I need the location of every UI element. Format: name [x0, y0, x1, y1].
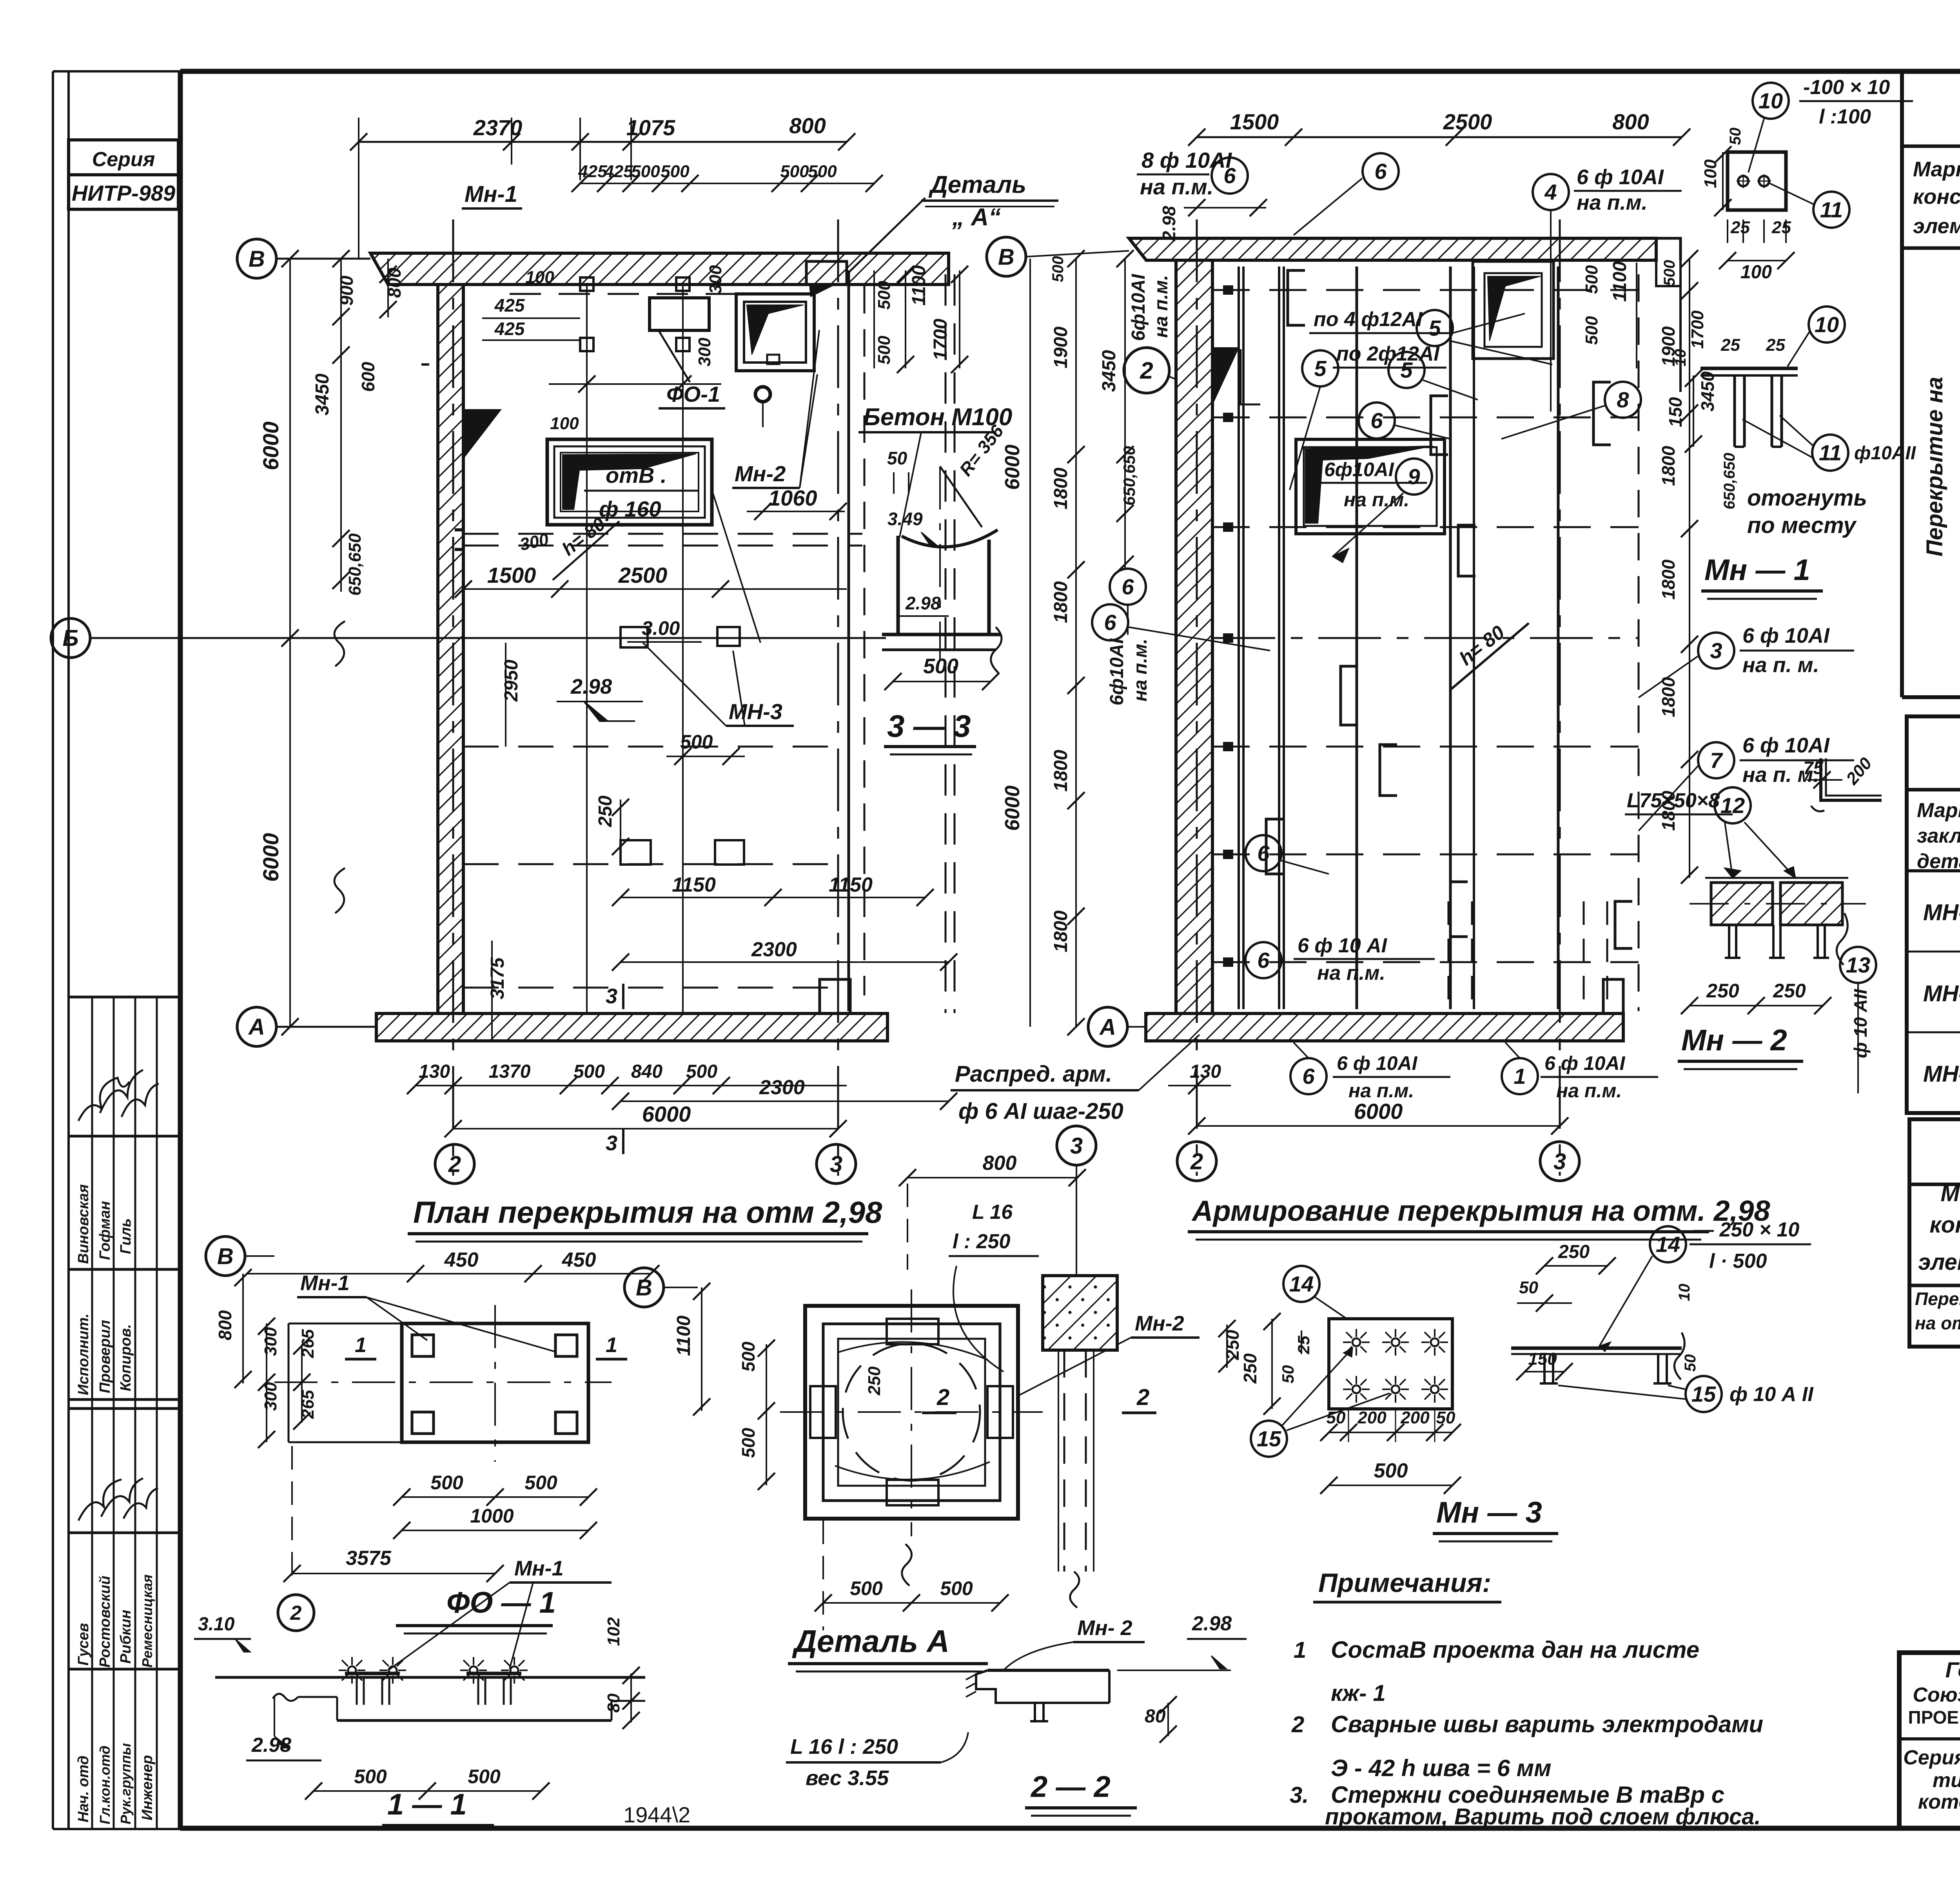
axis 2 right plan: [1196, 219, 1198, 1176]
svg-text:300: 300: [695, 337, 714, 366]
ФО-1 axis В circle: [206, 1236, 245, 1276]
svg-text:3175: 3175: [487, 957, 508, 999]
svg-text:10: 10: [1815, 312, 1839, 337]
sidebar signature table: [69, 996, 180, 999]
svg-text:1500: 1500: [1230, 109, 1279, 134]
circled 6 lower1: [1245, 835, 1281, 871]
svg-text:Мн — 3: Мн — 3: [1436, 1496, 1542, 1529]
left plan Мн-1 embedded square: [736, 294, 814, 371]
svg-text:2500: 2500: [618, 563, 668, 587]
svg-text:Мн-1: Мн-1: [514, 1557, 564, 1580]
svg-text:констр.: констр.: [1929, 1212, 1960, 1238]
right plan Мн-1 plate frame top right: [1473, 261, 1553, 359]
svg-text:500: 500: [430, 1472, 463, 1494]
svg-text:Перекрытие: Перекрытие: [1915, 1289, 1960, 1309]
Мн-3 right section sketch: [1511, 1347, 1682, 1350]
svg-text:6: 6: [1104, 610, 1116, 635]
Мн-2 dims 250 250: [1690, 1005, 1823, 1006]
Мн-1 circled 10 top with label: [1753, 83, 1789, 119]
circled 4 with label: [1533, 174, 1569, 210]
left plan washer symbol: [755, 387, 770, 402]
svg-text:10: 10: [1759, 89, 1783, 113]
svg-text:10: 10: [1676, 1284, 1693, 1302]
svg-text:Серия: Серия: [92, 148, 155, 171]
svg-text:6ф10АI: 6ф10АI: [1128, 274, 1149, 341]
svg-text:на п.м.: на п.м.: [1344, 489, 1409, 511]
left plan bottom wall hatched band: [376, 1013, 887, 1041]
svg-text:Армирование перекрытия на отм.: Армирование перекрытия на отм. 2,98: [1191, 1195, 1770, 1227]
Деталь А bottom dims 500 500: [823, 1602, 1000, 1604]
svg-text:6000: 6000: [258, 833, 283, 882]
svg-text:6: 6: [1302, 1064, 1315, 1089]
svg-text:500: 500: [524, 1472, 557, 1494]
svg-text:2.98: 2.98: [1192, 1612, 1232, 1635]
svg-text:2500: 2500: [1443, 109, 1492, 134]
svg-text:200: 200: [1400, 1408, 1430, 1427]
svg-text:6000: 6000: [1001, 444, 1024, 490]
svg-text:5: 5: [1400, 358, 1413, 383]
svg-text:15: 15: [1691, 1382, 1716, 1407]
svg-text:50: 50: [1327, 1408, 1346, 1427]
svg-text:3.: 3.: [1290, 1782, 1308, 1808]
Деталь А center lines: [911, 1289, 912, 1536]
svg-text:отм. 2.98: отм. 2.98: [1957, 413, 1960, 521]
Мн-1 elevation view: [1700, 367, 1798, 370]
svg-text:6 ф 10АI: 6 ф 10АI: [1742, 624, 1830, 647]
axis Б line across left plan: [438, 637, 886, 639]
svg-text:12: 12: [1720, 793, 1745, 818]
svg-text:6: 6: [1257, 841, 1270, 866]
svg-text:250: 250: [595, 796, 616, 827]
Мн-2 studs: [1728, 925, 1730, 958]
svg-text:2: 2: [1190, 1149, 1203, 1174]
svg-text:6000: 6000: [642, 1102, 691, 1126]
svg-text:100: 100: [525, 268, 554, 287]
svg-text:План перекрытия на отм 2,98: План перекрытия на отм 2,98: [413, 1195, 882, 1229]
svg-text:250: 250: [1773, 980, 1806, 1002]
svg-text:500: 500: [468, 1766, 501, 1787]
svg-text:500: 500: [354, 1766, 387, 1787]
Мн-1 detail plate plan view: [1728, 152, 1786, 210]
right plan right chain: [1689, 259, 1690, 878]
axis circle В left: [237, 239, 276, 278]
Деталь А frame squares: [805, 1306, 1018, 1519]
right plan axis 2 balloon top: [1124, 348, 1169, 393]
svg-text:3: 3: [1070, 1133, 1083, 1158]
axis 2 line and circle: [452, 219, 454, 1176]
svg-text:250: 250: [1706, 980, 1739, 1002]
svg-text:отВ .: отВ .: [606, 463, 667, 488]
svg-text:ф10АII: ф10АII: [1854, 443, 1916, 464]
svg-text:Распред. арм.: Распред. арм.: [955, 1061, 1112, 1087]
svg-text:Ростовский: Ростовский: [97, 1575, 113, 1668]
svg-text:Марка: Марка: [1913, 158, 1960, 181]
svg-text:250: 250: [865, 1366, 884, 1396]
svg-text:1000: 1000: [470, 1505, 514, 1527]
svg-text:Гиль: Гиль: [118, 1218, 134, 1254]
right plan top wall hatched band: [1129, 238, 1656, 260]
1-1 slab section: [215, 1676, 645, 1679]
left plan dim 2300 bottom: [621, 1100, 949, 1102]
svg-text:Мн-1: Мн-1: [300, 1271, 350, 1295]
middle dim chains 6000 1800: [1029, 259, 1031, 1027]
svg-text:800: 800: [983, 1152, 1017, 1175]
svg-text:50: 50: [1436, 1408, 1455, 1427]
svg-text:102: 102: [604, 1617, 623, 1646]
Мн-3 dim 500: [1329, 1485, 1452, 1486]
left plan anchor squares with dims: [580, 277, 593, 291]
svg-text:1150: 1150: [829, 874, 873, 896]
left plan dim 1150 1150: [621, 897, 925, 898]
svg-text:закладн.: закладн.: [1917, 825, 1960, 847]
svg-text:1800: 1800: [1658, 446, 1679, 486]
svg-text:на п.м.: на п.м.: [1151, 275, 1172, 338]
svg-text:Марка: Марка: [1917, 799, 1960, 822]
svg-text:НИТР-989: НИТР-989: [72, 181, 175, 205]
svg-text:500: 500: [631, 162, 660, 181]
svg-text:6000: 6000: [258, 421, 283, 470]
svg-text:2: 2: [448, 1151, 461, 1177]
right plan rebar hooks: [1288, 270, 1305, 325]
svg-text:11: 11: [1820, 198, 1843, 222]
axis circle Б left: [51, 618, 90, 658]
svg-text:отогнуть: отогнуть: [1747, 485, 1867, 511]
left plan top wall hatched band: [370, 253, 949, 285]
svg-text:500: 500: [686, 1061, 717, 1082]
right plan bottom footing step: [1603, 979, 1623, 1013]
svg-text:1800: 1800: [1051, 581, 1071, 623]
Мн-3 bottom dims 50 200 200 50: [1329, 1432, 1452, 1433]
svg-text:500: 500: [1661, 260, 1678, 286]
svg-text:500: 500: [738, 1341, 759, 1372]
Деталь А dashed column lines: [1063, 1350, 1065, 1572]
title block штамп: [1899, 1653, 1960, 1828]
svg-text:на п.м.: на п.м.: [1556, 1080, 1622, 1102]
svg-text:3: 3: [1553, 1149, 1566, 1174]
svg-text:на п.м.: на п.м.: [1348, 1080, 1414, 1102]
Деталь А hatched column above: [1043, 1276, 1117, 1350]
left plan black wedge at notch: [809, 285, 835, 297]
left plan wall notch Деталь А: [806, 261, 847, 285]
svg-text:1700: 1700: [1688, 310, 1707, 349]
svg-text:6000: 6000: [1354, 1099, 1403, 1124]
Мн-2 detail channels: [1711, 883, 1773, 925]
svg-text:ф 6 АI шаг-250: ф 6 АI шаг-250: [958, 1099, 1123, 1124]
svg-text:Мн-2: Мн-2: [735, 461, 786, 486]
svg-text:Гофман: Гофман: [97, 1201, 113, 1260]
ФО-1 center lines: [274, 1381, 612, 1383]
svg-text:130: 130: [1190, 1061, 1221, 1082]
svg-text:по месту: по месту: [1747, 513, 1857, 538]
svg-text:500: 500: [808, 162, 837, 181]
svg-text:В: В: [998, 244, 1014, 270]
svg-text:Виновская: Виновская: [75, 1184, 92, 1264]
svg-text:1075: 1075: [626, 115, 675, 140]
svg-text:кж- 1: кж- 1: [1331, 1680, 1386, 1706]
left plan opening ФО-1 rect: [650, 298, 709, 330]
circled 7 label right: [1698, 742, 1734, 778]
svg-text:2.98: 2.98: [905, 593, 941, 613]
svg-text:Примечания:: Примечания:: [1318, 1568, 1491, 1598]
right plan axis Б dashes: [1212, 637, 1639, 639]
Мн-3 dim 150: [1525, 1371, 1564, 1372]
svg-text:1800: 1800: [1051, 468, 1071, 509]
svg-text:1: 1: [1514, 1064, 1526, 1089]
svg-text:Копиров.: Копиров.: [118, 1324, 134, 1391]
circled 6 lower2 with label: [1245, 942, 1281, 978]
left side dim chains of left plan: [289, 259, 291, 1027]
svg-text:В: В: [217, 1244, 234, 1269]
svg-text:L75×50×8: L75×50×8: [1627, 789, 1720, 812]
svg-text:1370: 1370: [489, 1061, 531, 1082]
right plan vertical rebars: [1238, 266, 1240, 1009]
svg-text:6 ф 10АI: 6 ф 10АI: [1577, 165, 1664, 189]
Мн-1 circled 11 with leader: [1813, 192, 1849, 228]
svg-text:6ф10АI: 6ф10АI: [1107, 638, 1127, 705]
svg-text:500: 500: [1582, 316, 1601, 345]
svg-text:по 4 ф12АI: по 4 ф12АI: [1314, 308, 1423, 331]
Деталь А axis В circle: [624, 1268, 664, 1307]
svg-text:Серия унифицированных: Серия унифицированных: [1903, 1746, 1960, 1769]
circled 6 top: [1212, 158, 1248, 194]
svg-text:800: 800: [215, 1310, 235, 1340]
svg-text:элем.: элем.: [1913, 214, 1960, 238]
svg-text:500: 500: [738, 1428, 759, 1458]
Мн-3 weld bursts: [1352, 1338, 1360, 1346]
svg-text:котельных с котлами: котельных с котлами: [1918, 1791, 1960, 1813]
svg-text:на п.м.: на п.м.: [1130, 638, 1151, 702]
svg-text:ф 160: ф 160: [599, 497, 661, 521]
circled 8 and leader: [1605, 382, 1641, 418]
Деталь А axis 3 circle above: [1057, 1126, 1096, 1165]
section 3-3 dim 500: [893, 681, 991, 682]
svg-text:А: А: [1099, 1014, 1116, 1040]
svg-text:L 16: L 16: [972, 1201, 1013, 1224]
right plan отв opening: [1296, 439, 1445, 534]
svg-text:450: 450: [444, 1249, 479, 1271]
svg-text:— 250 × 10: — 250 × 10: [1693, 1218, 1799, 1241]
ФО-1 axis 2 circle: [278, 1595, 314, 1631]
svg-text:11: 11: [1819, 441, 1842, 465]
svg-text:50: 50: [1279, 1365, 1297, 1383]
right plan black dots on wall: [1223, 285, 1233, 295]
axis circle А right plan: [1088, 1007, 1127, 1046]
left plan left wall hatched: [438, 285, 463, 1013]
svg-text:2: 2: [290, 1602, 302, 1624]
svg-text:9: 9: [1408, 464, 1420, 489]
svg-text:2: 2: [1140, 357, 1153, 384]
svg-text:Мн — 1: Мн — 1: [1704, 553, 1810, 587]
svg-text:150: 150: [1528, 1349, 1557, 1369]
circled 6 with label mid: [1110, 569, 1146, 605]
svg-text:Мн- 2: Мн- 2: [1077, 1616, 1132, 1640]
svg-text:15: 15: [1257, 1427, 1281, 1451]
left plan right dashed verticals: [945, 274, 947, 1013]
svg-text:300: 300: [706, 265, 725, 294]
axis circle В right plan: [987, 237, 1026, 276]
sheet border frame: [180, 69, 1960, 74]
svg-text:Э - 42 h шва = 6 мм: Э - 42 h шва = 6 мм: [1331, 1755, 1552, 1781]
Мн-3 circled 15 left: [1251, 1421, 1287, 1457]
svg-text:на отм.2,98: на отм.2,98: [1915, 1313, 1960, 1333]
svg-text:6000: 6000: [1001, 785, 1024, 831]
axis 3 right plan: [1559, 219, 1561, 1176]
svg-text:500: 500: [573, 1061, 605, 1082]
svg-text:425: 425: [494, 295, 525, 315]
right plan black corner wedge on wall: [1212, 348, 1239, 404]
svg-text:1900: 1900: [1051, 326, 1071, 368]
svg-text:по 2ф12АI: по 2ф12АI: [1336, 343, 1440, 365]
Мн-3 right dims: [1544, 1265, 1607, 1267]
svg-text:МН-3: МН-3: [729, 699, 782, 724]
svg-text:150: 150: [1665, 397, 1686, 427]
right plan top dims 1500 2500 800: [1197, 136, 1682, 138]
svg-text:3.49: 3.49: [887, 509, 923, 529]
svg-text:1800: 1800: [1051, 910, 1071, 952]
svg-text:1 — 1: 1 — 1: [387, 1788, 467, 1821]
svg-text:3450: 3450: [1697, 371, 1718, 412]
svg-text:Сварные швы варить электрод: Сварные швы варить электродами: [1331, 1711, 1763, 1737]
right plan top notch: [1656, 238, 1681, 260]
2-2 section sketch: [988, 1669, 1109, 1672]
svg-text:6: 6: [1122, 575, 1134, 599]
svg-text:ф 10 АII: ф 10 АII: [1850, 989, 1871, 1058]
svg-text:100: 100: [550, 414, 579, 433]
right plan dim 6000: [1197, 1125, 1560, 1127]
svg-text:650,650: 650,650: [345, 533, 365, 596]
svg-text:1700: 1700: [930, 319, 951, 361]
svg-text:Деталь А: Деталь А: [792, 1624, 949, 1659]
left plan dim 2300: [621, 961, 949, 963]
svg-text:1: 1: [355, 1333, 367, 1357]
svg-text:3.10: 3.10: [198, 1614, 235, 1635]
Мн-3 plate with welds: [1329, 1319, 1452, 1409]
svg-text:100: 100: [1701, 159, 1720, 188]
svg-text:800: 800: [789, 113, 826, 138]
svg-text:25: 25: [1766, 335, 1785, 355]
svg-text:типовых проектов: типовых проектов: [1933, 1769, 1960, 1792]
svg-text:-100 × 10: -100 × 10: [1803, 76, 1890, 99]
sidebar box Серия: [69, 140, 178, 175]
axis circle А left: [237, 1007, 276, 1046]
svg-text:3450: 3450: [1099, 350, 1120, 392]
svg-text:2: 2: [1291, 1712, 1304, 1737]
svg-text:900: 900: [336, 276, 357, 306]
svg-text:2300: 2300: [759, 1076, 805, 1099]
svg-text:75: 75: [1803, 758, 1824, 778]
circled 6 left: [1092, 604, 1128, 640]
svg-text:1100: 1100: [909, 265, 929, 306]
1-1 dims 500 500: [314, 1790, 541, 1792]
svg-text:2: 2: [936, 1385, 949, 1410]
ФО-1 bottom dims 500 500 1000 3575: [402, 1496, 588, 1498]
circled 3 label right: [1698, 633, 1734, 669]
svg-text:5: 5: [1314, 356, 1327, 381]
svg-text:Б: Б: [62, 625, 78, 651]
svg-text:500: 500: [923, 654, 958, 678]
right plan beam dashed rects bottom: [1448, 901, 1450, 1011]
svg-text:Союзмашстройпроект: Союзмашстройпроект: [1913, 1684, 1960, 1706]
Деталь А side plates: [887, 1319, 938, 1344]
svg-text:элемента: элемента: [1918, 1249, 1960, 1275]
svg-text:1800: 1800: [1658, 559, 1679, 600]
svg-text:на п. м.: на п. м.: [1742, 653, 1819, 677]
left plan dashed beam lines under top band: [421, 363, 429, 366]
left plan dashed rows lower: [463, 746, 847, 748]
svg-text:6 ф 10 АI: 6 ф 10 АI: [1298, 934, 1388, 957]
svg-text:2: 2: [1136, 1385, 1149, 1410]
svg-text:300: 300: [261, 1327, 280, 1356]
svg-text:3450: 3450: [312, 373, 333, 415]
svg-text:80: 80: [604, 1693, 623, 1713]
svg-text:6ф10АI: 6ф10АI: [1324, 459, 1394, 480]
svg-text:800: 800: [1612, 109, 1649, 134]
svg-text:500: 500: [875, 281, 894, 310]
svg-text:L 16 l : 250: L 16 l : 250: [790, 1735, 898, 1758]
Мн-3 circled 14 right with label: [1650, 1226, 1686, 1262]
svg-text:650,650: 650,650: [1120, 446, 1138, 506]
svg-text:6 ф 10АI: 6 ф 10АI: [1742, 734, 1830, 757]
svg-text:1: 1: [1294, 1637, 1306, 1663]
left plan bottom footing step right: [820, 979, 850, 1013]
ФО-1 anchor squares: [412, 1335, 434, 1356]
svg-text:450: 450: [562, 1249, 596, 1271]
svg-text:1944\2: 1944\2: [623, 1802, 690, 1827]
svg-text:МН- 3: МН- 3: [1923, 1061, 1960, 1087]
svg-text:500: 500: [661, 162, 690, 181]
svg-text:1150: 1150: [672, 874, 716, 896]
svg-text:250: 250: [1240, 1353, 1260, 1384]
svg-text:МН- 1: МН- 1: [1923, 900, 1960, 925]
1-1 Мн-1 plates: [345, 1672, 400, 1675]
Мн-1 circled 11 second with ф10АII: [1812, 435, 1848, 471]
left plan black wedge on wall: [463, 410, 501, 459]
right plan dashed rows: [1212, 289, 1639, 291]
svg-text:Марка: Марка: [1940, 1181, 1960, 1206]
svg-text:3: 3: [830, 1151, 842, 1177]
svg-text:Гл.кон.отд: Гл.кон.отд: [97, 1746, 113, 1824]
left plan beam plates near bottom: [621, 840, 651, 865]
svg-text:Проверил: Проверил: [97, 1320, 113, 1393]
svg-text:l :100: l :100: [1819, 105, 1871, 128]
svg-text:Мн-1: Мн-1: [465, 181, 517, 207]
svg-text:4: 4: [1544, 180, 1557, 205]
svg-text:425: 425: [604, 162, 633, 181]
Мн-3 circled 15 right with ф10АII: [1686, 1376, 1722, 1412]
table Расход бетона и стали на один конструктивный элемент: [1909, 1119, 1960, 1347]
svg-text:7: 7: [1710, 748, 1723, 773]
middle chain 3450 650: [1124, 259, 1126, 568]
svg-text:500: 500: [680, 731, 713, 753]
svg-text:2.98: 2.98: [570, 675, 612, 698]
svg-text:500: 500: [850, 1577, 883, 1599]
svg-text:500: 500: [1049, 256, 1067, 282]
svg-text:25: 25: [1720, 335, 1740, 355]
svg-text:Гусев: Гусев: [75, 1623, 92, 1666]
svg-text:на п.м.: на п.м.: [1577, 191, 1648, 214]
svg-text:В: В: [636, 1275, 652, 1300]
svg-text:3: 3: [606, 1131, 617, 1155]
svg-text:50: 50: [1682, 1354, 1699, 1372]
Мн-1 circled 10 second: [1809, 306, 1845, 343]
svg-text:прокатом, Варить под слоем: прокатом, Варить под слоем флюса.: [1325, 1804, 1761, 1829]
svg-text:Рук.группы: Рук.группы: [118, 1743, 134, 1824]
left plan dim row 425 425 500 500 500 500: [580, 183, 874, 184]
svg-text:l : 250: l : 250: [953, 1230, 1010, 1253]
svg-text:Нач. отд: Нач. отд: [75, 1756, 92, 1822]
svg-text:Инженер: Инженер: [139, 1755, 156, 1820]
svg-text:1100: 1100: [1610, 261, 1630, 302]
